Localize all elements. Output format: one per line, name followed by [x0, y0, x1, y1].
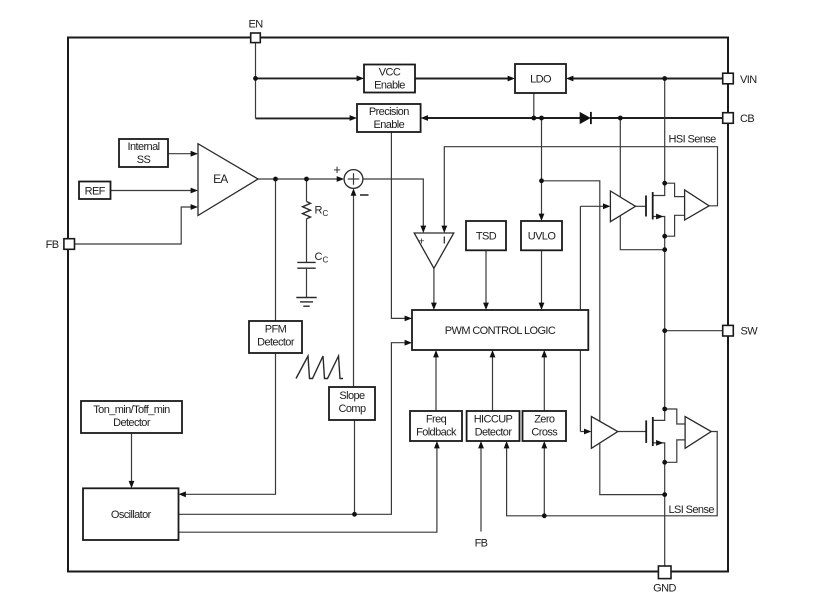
wire VCC branch to LS gate driver supply and return to source node [542, 181, 665, 495]
wire VCC rail down to UVLO [541, 118, 543, 215]
wire Ton_min/Toff_min Detector to Oscillator [131, 433, 133, 482]
box UVLO [521, 221, 562, 250]
arrow comparator output into PWM logic [431, 303, 437, 310]
box VCC Enable [364, 65, 415, 93]
wire LDO output drop [533, 93, 535, 118]
box PFM Detector [249, 321, 302, 353]
wire SW node to SW pin [665, 330, 723, 332]
node Slope Comp tap on oscillator line [352, 512, 357, 517]
svg-text:+: + [418, 236, 424, 248]
wire CB rail left segment (to Precision Enable) [427, 117, 580, 119]
wire resistor to capacitor [306, 219, 308, 262]
pin SW [723, 325, 734, 336]
wire Oscillator output to PWM logic [179, 343, 406, 515]
wire VIN pin to LDO [572, 78, 723, 80]
wire CB rail right segment (diode to CB pin) [592, 117, 724, 119]
svg-text:Freq: Freq [426, 414, 447, 426]
arrow into VCC Enable [357, 76, 364, 82]
svg-text:Ton_min/Toff_min: Ton_min/Toff_min [93, 404, 170, 416]
svg-text:HSI Sense: HSI Sense [669, 133, 717, 145]
arrow HICCUP into PWM logic [490, 350, 496, 357]
wire HICCUP Detector to PWM logic [492, 357, 494, 412]
wire Slope Comp down to oscillator line [354, 420, 356, 514]
box PWM CONTROL LOGIC [412, 310, 588, 350]
svg-text:LSI Sense: LSI Sense [669, 504, 715, 516]
wire HS FET drain tap [653, 183, 665, 195]
svg-text:EN: EN [248, 19, 263, 31]
arrow LS MOSFET source [656, 440, 663, 446]
arrow Precision Enable into PWM logic [405, 316, 412, 322]
svg-text:Foldback: Foldback [416, 427, 457, 439]
diode D1 bootstrap [580, 112, 591, 124]
comparator PWM (down-pointing) [414, 233, 454, 268]
pin FB [64, 239, 75, 250]
arrow into Freq Foldback bottom [434, 441, 440, 448]
summing junction circle [344, 170, 363, 189]
svg-text:SS: SS [137, 154, 151, 166]
wire EA output [258, 178, 338, 180]
arrow UVLO into PWM logic [539, 303, 545, 310]
ground [296, 298, 316, 307]
wire HS driver to gate [636, 205, 646, 207]
node LDO output on CB rail [531, 116, 536, 121]
svg-text:PFM: PFM [265, 324, 287, 336]
box REF [79, 182, 111, 200]
arrow TSD into PWM logic [483, 303, 489, 310]
transistor Q1 HS power MOSFET [646, 192, 653, 220]
pin EN [251, 33, 261, 43]
wire REF to EA [111, 190, 192, 192]
arrow Zero Cross into PWM logic [541, 350, 547, 357]
node EN junction [253, 76, 258, 81]
node diode cathode junction [618, 116, 623, 121]
label comparator minus [443, 237, 445, 244]
node LS source [662, 460, 667, 465]
arrow into summing junction bottom [351, 188, 357, 195]
arrow into LDO left [508, 76, 515, 82]
wire LS driver to gate [618, 431, 646, 433]
arrow FB into HICCUP bottom [478, 441, 484, 448]
svg-text:FB: FB [475, 538, 488, 550]
arrow into HS gate driver [603, 203, 610, 209]
wire LSI Sense branch to Zero Cross [543, 448, 545, 516]
wire PWM comparator output [433, 268, 435, 304]
node SW [662, 328, 667, 333]
wire LS sense amp minus input [665, 440, 685, 462]
arrow into Oscillator top [129, 481, 135, 488]
node VCC branch junction [539, 178, 544, 183]
wire Slope Comp to summing junction minus input [353, 195, 355, 387]
svg-text:GND: GND [653, 583, 676, 595]
box HICCUP Detector [467, 411, 520, 441]
capacitor Cc [297, 261, 315, 263]
svg-text:Detector: Detector [475, 427, 513, 439]
node LS driver return [662, 492, 667, 497]
svg-text:Detector: Detector [113, 417, 151, 429]
arrow Freq Foldback into PWM logic [433, 350, 439, 357]
wire SW node rail [664, 236, 666, 409]
svg-text:SW: SW [741, 326, 759, 338]
op-amp LS current sense [685, 417, 711, 449]
svg-text:Zero: Zero [534, 414, 555, 426]
wire EA output down through PFM Detector to Oscillator [185, 179, 276, 494]
svg-text:+: + [333, 162, 341, 177]
wire LSI Sense net [507, 432, 718, 516]
box Zero Cross [523, 411, 567, 441]
outer IC boundary [68, 38, 728, 572]
svg-text:LDO: LDO [530, 74, 552, 86]
box Oscillator [83, 488, 179, 540]
arrow into summing junction left [337, 176, 344, 182]
arrow into EA from FB [191, 204, 198, 210]
svg-text:Precision: Precision [369, 106, 409, 118]
wire Precision Enable down to PWM logic [391, 132, 405, 318]
wire LS FET drain tap [653, 409, 665, 420]
svg-text:Internal: Internal [128, 141, 160, 153]
wire UVLO output [541, 250, 543, 304]
arrow into comparator minus input [441, 226, 447, 233]
svg-text:VCC: VCC [379, 67, 401, 79]
buffer HS gate driver [610, 191, 635, 222]
arrow LSI Sense into HICCUP bottom [504, 441, 510, 448]
svg-text:C: C [315, 251, 323, 263]
pin VIN [723, 73, 734, 84]
node HS drain [662, 181, 667, 186]
node HS driver return [662, 247, 667, 252]
arrow into Precision Enable left [350, 115, 357, 121]
wire HS sense amp plus input [665, 183, 685, 196]
wire Oscillator output to Freq Foldback [179, 448, 437, 533]
wire EN junction to VCC Enable [256, 77, 359, 79]
wire TSD output [485, 250, 487, 304]
node HS source [662, 234, 667, 239]
svg-text:C: C [323, 209, 329, 218]
wire LS sense amp plus input [665, 409, 685, 424]
node LS drain [662, 407, 667, 412]
svg-text:PWM CONTROL LOGIC: PWM CONTROL LOGIC [445, 325, 556, 337]
buffer LS gate driver [591, 417, 617, 449]
svg-text:Comp: Comp [339, 403, 366, 415]
svg-text:UVLO: UVLO [528, 231, 557, 243]
arrow HS MOSFET source [656, 214, 663, 220]
box Freq Foldback [410, 411, 462, 441]
wire HS sense amp minus input [665, 215, 685, 236]
wire VIN rail down to HS FET drain [664, 79, 666, 184]
svg-text:EA: EA [213, 172, 228, 186]
arrow into UVLO top [539, 214, 545, 221]
svg-text:FB: FB [46, 239, 59, 251]
arrow Oscillator into PWM logic [405, 340, 412, 346]
wire HS FET source tap [653, 217, 665, 237]
sawtooth ramp waveform [296, 356, 343, 379]
arrow into EA from REF [191, 188, 198, 194]
box Internal SS [119, 139, 168, 167]
wire LS source down to GND pin [664, 462, 666, 566]
node Zero Cross tap on LSI line [542, 513, 547, 518]
wire FB pin to EA input [75, 207, 192, 244]
node EA output junction [273, 177, 278, 182]
node compensation tap [304, 177, 309, 182]
op-amp EA error amplifier [198, 144, 258, 216]
wire summing junction to PWM comparator [363, 179, 423, 227]
arrow into comparator plus input [420, 226, 426, 233]
box Precision Enable [357, 104, 421, 132]
svg-text:Enable: Enable [373, 119, 404, 131]
box LDO [515, 64, 566, 93]
svg-text:CB: CB [740, 113, 754, 125]
svg-text:Cross: Cross [531, 427, 558, 439]
wire FB stub to HICCUP Detector [480, 448, 482, 532]
svg-text:Enable: Enable [374, 80, 405, 92]
node VIN rail tap [662, 76, 667, 81]
svg-text:Oscillator: Oscillator [111, 509, 152, 521]
svg-text:C: C [323, 256, 329, 265]
op-amp HS current sense [685, 190, 710, 220]
pin GND [658, 566, 671, 579]
arrow into LS gate driver [584, 429, 591, 435]
svg-text:R: R [315, 205, 323, 217]
arrow into Precision Enable right [421, 115, 428, 121]
wire capacitor to ground [306, 268, 308, 297]
label summing minus [360, 194, 369, 196]
transistor Q2 LS power MOSFET [646, 417, 653, 446]
wire HSI Sense net [444, 147, 717, 227]
wire VCC Enable to LDO [415, 78, 509, 80]
wire Zero Cross to PWM logic [543, 357, 545, 412]
arrow LSI Sense into Zero Cross bottom [541, 441, 547, 448]
wire bootstrap to HS gate driver supply and return to SW node [620, 118, 664, 250]
arrow into EA from Internal SS [191, 151, 198, 157]
wire compensation node down to resistor [306, 179, 308, 202]
resistor Rc [303, 202, 311, 219]
wire LS FET source tap [653, 443, 665, 462]
wire Internal SS to EA [169, 153, 192, 155]
box Slope Comp [329, 387, 375, 420]
svg-text:TSD: TSD [476, 231, 497, 243]
box Ton_min/Toff_min Detector [81, 401, 182, 433]
node VCC tap on CB rail [539, 116, 544, 121]
arrow into LDO right [566, 76, 573, 82]
wire gate drive signals from PWM logic to HS and LS drivers [579, 206, 581, 431]
svg-text:Slope: Slope [339, 390, 365, 402]
arrow into Oscillator right [179, 491, 186, 497]
pin CB [723, 113, 734, 124]
svg-text:HICCUP: HICCUP [474, 414, 513, 426]
svg-text:Detector: Detector [257, 337, 295, 349]
wire Freq Foldback to PWM logic [435, 357, 437, 412]
svg-text:VIN: VIN [740, 74, 757, 86]
wire EN pin down to Precision Enable row [255, 43, 257, 119]
svg-text:REF: REF [85, 186, 106, 198]
box TSD [466, 221, 506, 250]
